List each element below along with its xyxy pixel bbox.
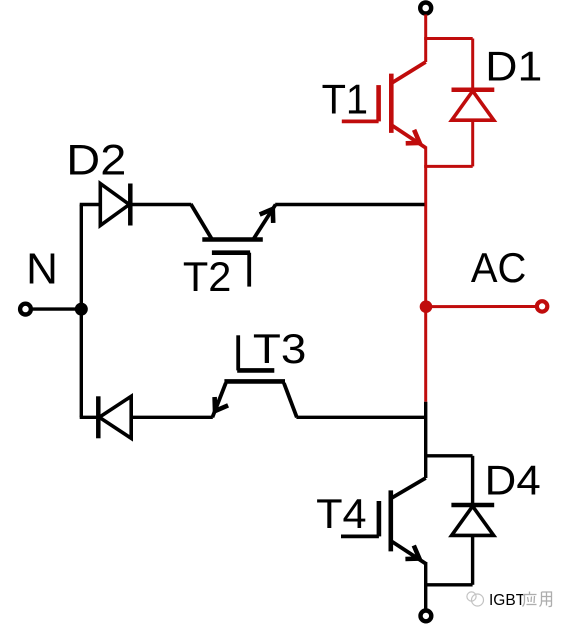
- IGBT T4 emitter arrow: [405, 546, 419, 560]
- IGBT T1 emitter arrow: [406, 130, 420, 144]
- IGBT T3 gate lead: [236, 335, 240, 370]
- wire: AC node to AC terminal (red): [426, 305, 537, 308]
- terminal DC- (bottom): [421, 611, 432, 622]
- wire: rail corner to D2 anode: [80, 203, 101, 206]
- IGBT T1 collector lead: [391, 62, 425, 83]
- diode D2 triangle: [100, 184, 129, 226]
- IGBT T4 emitter lead: [391, 541, 426, 564]
- IGBT T3 gate bar: [237, 368, 274, 373]
- wire: rail corner to D3 cathode: [80, 416, 99, 419]
- svg-text:D4: D4: [485, 456, 541, 503]
- IGBT T2 gate bar: [212, 250, 250, 255]
- diode D2 cathode bar: [128, 184, 133, 226]
- IGBT T2 gate lead: [247, 253, 251, 287]
- watermark glyph ying: [523, 592, 537, 607]
- IGBT T2 collector lead: [191, 204, 212, 239]
- diode D4 lead (anode): [471, 535, 474, 584]
- IGBT T4 collector lead: [391, 478, 426, 499]
- wire: AC rail black segment down to T4: [424, 402, 427, 478]
- wire: D3 anode to T3 emitter: [131, 416, 213, 419]
- svg-text:D2: D2: [66, 137, 126, 185]
- svg-text:T3: T3: [253, 325, 307, 372]
- wire: T3 collector to AC rail: [296, 416, 424, 419]
- IGBT T3 body bar: [224, 379, 285, 384]
- diode D1 lead (cathode, red): [471, 39, 474, 90]
- wire: D1 anode to T1 emitter rail (red): [424, 165, 473, 168]
- svg-text:IGBT: IGBT: [489, 592, 526, 609]
- IGBT T3 emitter arrow: [215, 397, 229, 411]
- node AC junction dot: [420, 300, 433, 313]
- IGBT T1 emitter lead: [391, 125, 425, 148]
- diode D3 triangle: [99, 396, 131, 438]
- watermark logo: [467, 592, 484, 606]
- IGBT T4 body bar: [388, 490, 393, 551]
- IGBT T4 gate bar: [377, 501, 382, 536]
- wire: N terminal to neutral rail: [33, 307, 82, 310]
- IGBT T1 gate lead: [342, 120, 379, 124]
- wire: T1 emitter down to AC node (red rail): [424, 147, 427, 402]
- wire: top terminal down to T1 collector corner (red): [424, 15, 427, 63]
- svg-text:D1: D1: [485, 43, 542, 90]
- terminal N: [20, 304, 31, 315]
- wire: D4 anode to T4 emitter rail: [424, 583, 472, 586]
- diode D4 lead (cathode): [471, 456, 474, 505]
- IGBT T4 gate lead: [341, 535, 379, 539]
- IGBT T3 emitter lead: [212, 383, 225, 417]
- IGBT T3 collector lead: [284, 383, 297, 417]
- svg-text:T4: T4: [316, 490, 367, 537]
- wire: neutral vertical rail: [80, 205, 83, 418]
- diode D4 cathode bar: [451, 503, 494, 508]
- diode D3 cathode bar: [96, 396, 101, 438]
- svg-text:T2: T2: [183, 253, 232, 300]
- IGBT T2 emitter arrow: [260, 209, 274, 223]
- diode D1 triangle: [452, 91, 494, 120]
- watermark glyph yong: [540, 592, 552, 607]
- wire: branch to D4 cathode: [424, 454, 472, 457]
- IGBT T2 emitter lead: [254, 205, 276, 239]
- terminal DC+ (top): [420, 3, 431, 14]
- wire: D2 cathode to T2 collector: [130, 203, 191, 206]
- svg-text:AC: AC: [471, 244, 527, 291]
- node N junction dot: [75, 303, 88, 316]
- IGBT T2 body bar: [202, 237, 262, 242]
- diode D1 cathode bar: [452, 88, 495, 93]
- svg-text:T1: T1: [322, 76, 369, 123]
- wire: T4 emitter to bottom terminal: [424, 562, 427, 610]
- wire: T2 emitter to AC rail: [275, 203, 424, 206]
- terminal AC: [537, 301, 547, 311]
- IGBT T1 body bar: [389, 74, 394, 133]
- diode D1 lead (anode, red): [471, 120, 474, 166]
- svg-text:N: N: [26, 245, 58, 294]
- wire: branch to D1 cathode (red): [424, 37, 473, 40]
- diode D4 triangle: [452, 506, 494, 535]
- IGBT T1 gate bar: [376, 85, 381, 121]
